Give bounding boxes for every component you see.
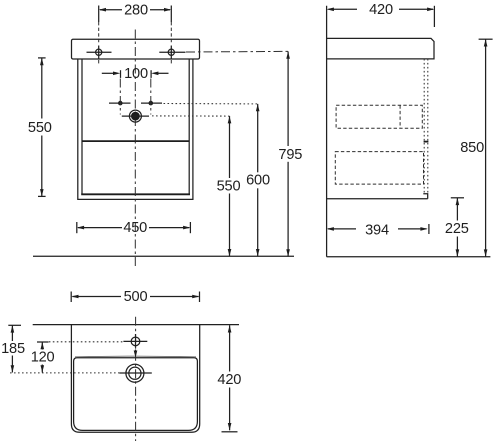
basin outline plan view (74, 358, 198, 431)
hole axis dash-dot to 795 dim (186, 50, 288, 53)
back bottom step side view (423, 194, 427, 199)
basin rim inner edge (75, 355, 196, 358)
svg-text:394: 394 (365, 222, 389, 238)
cabinet front face side view (326, 6, 328, 257)
drain front view (122, 110, 149, 122)
dimension 500 (71, 289, 199, 305)
countertop front view (72, 39, 200, 59)
svg-text:600: 600 (246, 173, 270, 189)
dimension 600 (246, 104, 270, 256)
svg-text:420: 420 (369, 2, 393, 18)
dimension 420 plan (217, 325, 241, 432)
tap hole dot left front view (109, 79, 131, 115)
fixing hole left (87, 22, 112, 64)
svg-text:795: 795 (278, 147, 302, 163)
divider tick side view (424, 141, 429, 143)
dotted leader drain (10, 372, 119, 374)
drawer divider front view (82, 140, 189, 142)
svg-text:850: 850 (460, 140, 484, 156)
dimension 185 (1, 325, 25, 372)
fixing hole right (159, 22, 185, 64)
drain plan view (126, 364, 144, 382)
tap hole dot right front view (141, 79, 162, 115)
dotted leader from dots to 600 dim (164, 103, 258, 105)
dimension 850 (460, 39, 492, 257)
svg-text:450: 450 (123, 220, 147, 236)
arrow at basin edge below tap hole (134, 350, 138, 358)
svg-text:500: 500 (124, 289, 148, 305)
dimension 450 (77, 220, 191, 236)
cabinet back hidden lines side view (423, 59, 425, 194)
svg-text:420: 420 (217, 372, 241, 388)
dimension 394 (327, 222, 429, 238)
floor line right (327, 256, 491, 258)
centerline plan view (135, 317, 137, 441)
dimension 280 (99, 2, 172, 22)
svg-text:120: 120 (31, 350, 55, 366)
drain horizontal axis (119, 372, 152, 374)
svg-text:185: 185 (1, 341, 25, 357)
floor line left (33, 255, 294, 257)
dimension 225 (445, 198, 469, 257)
svg-text:550: 550 (28, 120, 52, 136)
cabinet outer box front view (78, 59, 193, 199)
sink top edge with extensions (33, 324, 239, 326)
tap hole plan view (123, 334, 147, 348)
svg-text:100: 100 (124, 66, 148, 82)
upper drawer hidden box side view (336, 105, 422, 128)
cabinet inner panel lines front view (81, 59, 190, 194)
dotted leader from drain to 550 dim (152, 115, 230, 117)
dimension 795 (278, 51, 302, 256)
centerline front view (134, 30, 136, 268)
svg-text:280: 280 (124, 2, 148, 18)
dimension 420 side (327, 2, 435, 27)
dimension 100 (102, 66, 169, 82)
lower drawer hidden box side view (335, 152, 423, 185)
dotted leader tap hole (49, 341, 124, 343)
dimension 550 left (28, 58, 52, 197)
dimension 120 (31, 342, 55, 373)
countertop side view (327, 38, 434, 59)
dimension 550 right (217, 116, 241, 256)
cabinet bottom side view (327, 198, 428, 200)
svg-text:225: 225 (445, 221, 469, 237)
svg-text:550: 550 (217, 179, 241, 195)
sink outline plan view (71, 325, 199, 433)
